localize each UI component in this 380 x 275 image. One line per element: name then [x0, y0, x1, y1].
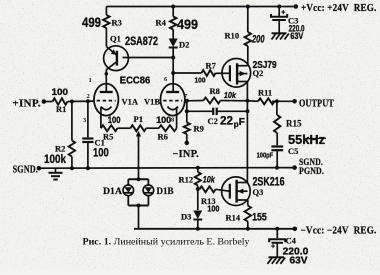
wire C5 to sgnd [276, 150, 278, 167]
svg-text:R14: R14 [226, 212, 241, 222]
svg-text:SGND.: SGND. [13, 165, 39, 176]
wire D1 pair to -Vcc rail [138, 206, 140, 229]
node R13 branch [196, 187, 200, 191]
node C3 top [277, 5, 281, 9]
resistor R13 [200, 186, 216, 192]
node -INP terminal [185, 141, 190, 146]
svg-text:200: 200 [251, 34, 265, 46]
node D1 pair bottom [137, 204, 141, 208]
wire rail to R4 [172, 7, 174, 17]
svg-text:R4: R4 [156, 18, 167, 28]
svg-text:2: 2 [87, 93, 90, 100]
resistor R3 [103, 15, 109, 28]
node pin1 blob [105, 72, 109, 76]
svg-text:2SA872: 2SA872 [125, 34, 158, 48]
tube V1A (ECC86 half) [94, 84, 139, 116]
wire R14 bottom [247, 222, 249, 229]
node SGND terminal left [37, 166, 42, 171]
node SGND/PGND terminal right [292, 165, 297, 170]
wire rail to R10 [247, 7, 249, 33]
svg-text:R10: R10 [225, 31, 240, 41]
wire R2 branch [71, 102, 73, 141]
resistor R2 [69, 141, 75, 157]
svg-text:55kHz: 55kHz [288, 132, 325, 147]
strike on Hz [305, 137, 326, 140]
svg-text:Q3: Q3 [253, 187, 264, 197]
node R10 top [246, 5, 250, 9]
wire D2 to Q1 base junction [172, 48, 174, 58]
wire R2 to sgnd [71, 157, 73, 169]
svg-text:R1: R1 [56, 104, 66, 114]
svg-text:22: 22 [220, 116, 233, 128]
wire R9 to -INP [186, 134, 188, 143]
resistor R14 [245, 206, 251, 222]
wire V1B grid (pin 7) [185, 100, 187, 102]
wire R12 top [197, 168, 199, 172]
svg-text:Рис. 1. Линейный усилитель Е.: Рис. 1. Линейный усилитель Е. Borbely [83, 237, 250, 248]
wire C1 branch [87, 101, 89, 137]
svg-text:499: 499 [177, 16, 198, 32]
resistor R4 [170, 17, 176, 30]
node +Vcc terminal [294, 4, 299, 9]
wire R7 to Q2 gate [216, 72, 230, 74]
svg-text:R8: R8 [210, 86, 220, 96]
wire -Vcc rail [134, 228, 295, 230]
node C5 bottom on rail [275, 166, 279, 170]
svg-text:100: 100 [93, 146, 109, 160]
svg-text:+INP.: +INP. [12, 99, 41, 110]
svg-text:Q1: Q1 [110, 34, 121, 44]
node C1 branch (pin 2) [86, 99, 90, 103]
wire C1 to sgnd [87, 142, 89, 168]
svg-text:PGND.: PGND. [299, 167, 324, 177]
wire Q3 source to R14 [247, 200, 249, 206]
resistor R8 [204, 98, 221, 104]
wire R5 to P1 [118, 127, 131, 129]
ground C4 (hatched) [268, 257, 286, 264]
capacitor C4 electrolytic [269, 229, 308, 266]
svg-text:10k: 10k [224, 90, 237, 100]
node R14 bottom [246, 227, 250, 231]
wire SGND rail [39, 167, 295, 170]
resistor R7 [202, 70, 216, 76]
svg-text:R15: R15 [286, 118, 302, 128]
resistor R1 [53, 98, 68, 104]
svg-text:R12: R12 [179, 174, 194, 184]
wire R12 bottom [197, 186, 199, 190]
svg-text:C5: C5 [288, 146, 298, 156]
transistor Q1 2SA872 [104, 34, 159, 71]
svg-text:P1: P1 [134, 114, 143, 124]
svg-text:10k: 10k [203, 174, 216, 185]
node wiper / D1 pair top [137, 177, 141, 181]
wire Q2 source down to Q3 drain [246, 82, 248, 183]
svg-text:499: 499 [82, 14, 101, 30]
svg-text:R6: R6 [158, 132, 168, 142]
svg-text:155: 155 [252, 212, 267, 224]
node C2/main vertical [245, 109, 249, 113]
wire D3 top [197, 189, 199, 210]
svg-text:D1B: D1B [157, 186, 174, 196]
node R2 bottom [70, 166, 74, 170]
svg-text:F: F [239, 117, 245, 128]
wire R11 to output [272, 100, 295, 102]
node R7 branch [171, 71, 175, 75]
potentiometer P1 [131, 125, 147, 131]
node R12 top on rail [196, 166, 200, 170]
svg-text:100: 100 [195, 77, 206, 84]
wire R8 to main vertical [221, 100, 248, 102]
wire C2 line left [187, 110, 213, 112]
wire P1 to R6 [146, 127, 159, 129]
svg-text:+: + [281, 10, 285, 17]
wire input to R1 [44, 101, 53, 103]
node C1 bottom [86, 166, 90, 170]
wire junction down to R7 branch [172, 58, 174, 74]
wire R10 to Q2 drain [247, 46, 249, 66]
svg-text:100k: 100k [44, 152, 66, 166]
svg-text:R9: R9 [194, 124, 204, 134]
wire V1B cathode (pin 8) [176, 107, 178, 128]
svg-text:100: 100 [207, 204, 219, 213]
node R15 top [275, 99, 279, 103]
wire D3 bottom [197, 220, 199, 229]
wire Q1 collector to V1A plate (pin 1) [105, 70, 107, 92]
node C2 branch [185, 109, 189, 113]
svg-text:OUTPUT: OUTPUT [299, 98, 334, 109]
svg-text:C4: C4 [286, 235, 297, 245]
svg-text:ECC86: ECC86 [120, 76, 151, 87]
wire C2 right [217, 110, 248, 112]
wire R7 left [173, 72, 201, 74]
svg-text:+Vcc: +24V REG.: +Vcc: +24V REG. [301, 3, 377, 14]
svg-text:C2: C2 [208, 116, 218, 126]
node R8/R11 junction [245, 99, 249, 103]
wiper arrow P1 [136, 131, 141, 179]
diode pair D1A D1B [103, 179, 174, 205]
svg-text:V1A: V1A [122, 97, 139, 107]
capacitor C3 electrolytic [271, 7, 305, 42]
svg-text:D2: D2 [179, 40, 189, 50]
node R4 top [171, 5, 175, 9]
svg-text:R3: R3 [112, 18, 122, 28]
transistor Q3 2SK216 [222, 175, 285, 206]
node R2 branch [70, 100, 74, 104]
wire R15 top [276, 101, 278, 115]
resistor R9 [184, 123, 190, 135]
svg-text:D3: D3 [181, 211, 191, 221]
tube V1B (ECC86 half) [144, 84, 185, 116]
resistor R10 [245, 32, 251, 46]
svg-text:R5: R5 [103, 132, 113, 142]
svg-text:1: 1 [89, 77, 92, 84]
capacitor C5 [257, 146, 299, 160]
wire R3 to Q1 emitter [105, 28, 107, 47]
svg-text:D1A: D1A [103, 186, 123, 196]
resistor R15 [274, 115, 280, 133]
resistor R11 [247, 100, 258, 103]
wire Q1 base line [123, 57, 174, 59]
wire R4 to D2 [172, 30, 174, 39]
diode D2 [169, 39, 190, 50]
node Q1 base / V1B plate [171, 56, 175, 60]
node C4 top [275, 227, 279, 231]
svg-text:100pF: 100pF [257, 151, 274, 160]
diode D3 [181, 211, 202, 222]
wire to V1B plate (pin 6) [172, 73, 174, 92]
wire R13 to Q3 gate [216, 189, 230, 191]
wire rail to R3 [105, 7, 107, 16]
capacitor C1 [82, 137, 109, 159]
capacitor C2 [208, 108, 245, 129]
svg-text:−INP.: −INP. [173, 149, 200, 160]
wire V1A cathode (pin 3) [100, 107, 102, 128]
node -Vcc terminal [293, 227, 298, 232]
svg-text:−Vcc: −24V REG.: −Vcc: −24V REG. [301, 225, 377, 236]
wire +Vcc top rail [106, 6, 295, 8]
wire R1 to grid [68, 100, 95, 102]
wire pin7 down [186, 101, 188, 123]
node pin7 [185, 99, 189, 103]
resistor R5 [101, 125, 118, 131]
svg-text:R11: R11 [258, 88, 272, 98]
node +INP terminal [42, 99, 47, 104]
svg-text:+: + [271, 244, 275, 251]
svg-text:100: 100 [108, 115, 121, 125]
wire R15 to C5 [276, 133, 278, 145]
svg-text:V1B: V1B [144, 97, 160, 107]
svg-text:Q2: Q2 [253, 68, 264, 78]
resistor R6 [159, 125, 177, 131]
svg-text:100: 100 [156, 115, 171, 125]
svg-text:63V: 63V [290, 31, 303, 41]
node OUTPUT terminal [292, 99, 297, 104]
ground C3 (hatched) [272, 33, 289, 39]
transistor Q2 2SJ79 [222, 59, 277, 88]
node D3 bottom [196, 227, 200, 231]
svg-text:R7: R7 [206, 61, 217, 71]
wire R8 line left [187, 100, 204, 102]
ground SGND [49, 168, 63, 179]
resistor R12 [195, 172, 201, 186]
svg-text:100: 100 [52, 87, 69, 98]
svg-text:63V: 63V [290, 255, 308, 266]
